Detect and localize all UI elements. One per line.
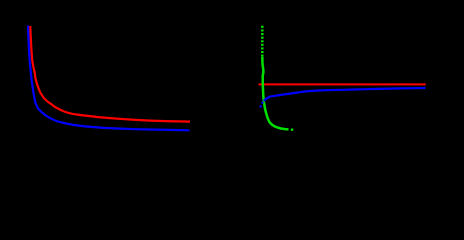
right plot green trailing dot (291, 129, 293, 131)
left plot blue curve (28, 26, 190, 131)
right plot blue curve (264, 88, 426, 101)
right plot blue start dash 1 (260, 105, 261, 107)
right plot green dotted vertical segment (261, 26, 264, 59)
right plot green solid curve (262, 57, 288, 129)
right plot blue start dash 2 (262, 102, 263, 104)
right plot red horizontal line (259, 83, 426, 85)
left plot red curve (30, 26, 190, 122)
